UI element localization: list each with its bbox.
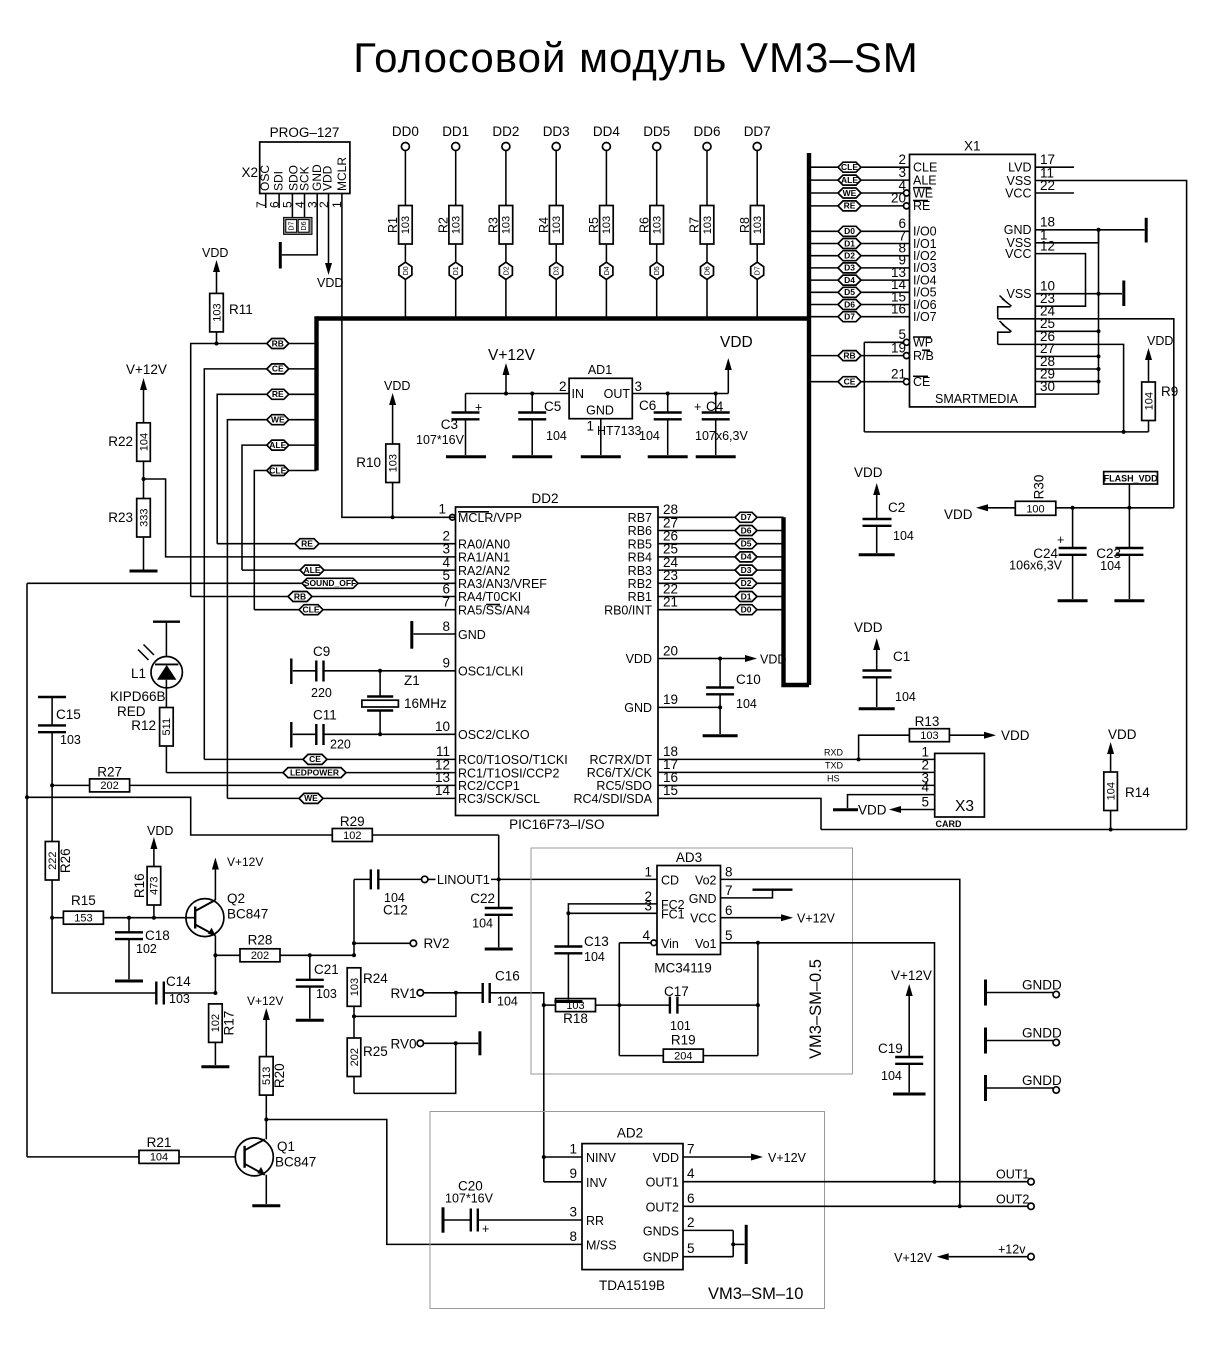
svg-text:VCC: VCC (1005, 247, 1031, 261)
svg-text:D4: D4 (741, 552, 752, 562)
svg-text:R21: R21 (147, 1135, 172, 1150)
svg-text:R18: R18 (563, 1011, 588, 1026)
svg-text:D6: D6 (301, 221, 308, 230)
X1 pin 3 ALE (811, 165, 937, 188)
X1 pin 14 I/O5 (811, 277, 937, 300)
svg-text:C10: C10 (736, 672, 761, 687)
svg-text:103: 103 (601, 216, 613, 234)
svg-text:CD: CD (661, 874, 679, 888)
svg-text:VDD: VDD (626, 652, 652, 666)
regulator AD1 HT7133 (559, 363, 642, 419)
svg-text:7: 7 (254, 201, 268, 208)
capacitor C18 102 (115, 918, 170, 980)
module box VM3-SM-0.5 (531, 848, 853, 1074)
svg-text:RB6: RB6 (628, 524, 652, 538)
svg-text:6: 6 (687, 1191, 695, 1206)
power VDD arrow above R14 (1107, 727, 1137, 754)
svg-text:VDD: VDD (1108, 727, 1137, 742)
Q1 collector wire (264, 1118, 268, 1140)
ground bar C24 (1058, 599, 1088, 602)
capacitor C5 104 (518, 394, 567, 456)
node D0 flag at DD2 (735, 605, 757, 615)
capacitor C13 104 (554, 934, 608, 1000)
svg-text:3: 3 (644, 899, 652, 914)
X1 pin 8 I/O2 (811, 241, 937, 264)
X2 pin 2 VDD wire (317, 194, 344, 291)
svg-text:7: 7 (442, 595, 450, 610)
svg-text:D6: D6 (844, 299, 855, 309)
svg-text:4: 4 (642, 928, 650, 943)
node D1 flag (449, 262, 462, 317)
svg-text:OUT2: OUT2 (996, 1192, 1029, 1206)
svg-text:1: 1 (330, 201, 344, 208)
svg-text:VDD: VDD (202, 246, 228, 260)
svg-text:AD3: AD3 (676, 850, 702, 865)
resistor R27 202 (52, 765, 130, 793)
svg-text:8: 8 (725, 865, 733, 880)
svg-text:RB: RB (843, 350, 855, 360)
node WE flag left (267, 415, 289, 425)
svg-text:VDD: VDD (653, 1151, 679, 1165)
capacitor C4 107x6,3V (694, 394, 748, 456)
svg-text:104: 104 (1143, 392, 1155, 410)
svg-text:104: 104 (150, 1152, 168, 1164)
svg-text:103: 103 (702, 216, 714, 234)
svg-text:Vin: Vin (661, 937, 679, 951)
AD2 OUT2 wire and terminal (683, 1192, 1034, 1209)
DD2 pin 7 RA5/SS/AN4 (254, 595, 530, 618)
svg-text:Vo1: Vo1 (695, 937, 717, 951)
svg-text:+: + (482, 1222, 489, 1236)
svg-text:RB4: RB4 (628, 551, 652, 565)
svg-text:3: 3 (569, 1205, 577, 1220)
capacitor C6 104 (639, 394, 682, 456)
svg-text:19: 19 (891, 340, 906, 355)
svg-text:103: 103 (400, 216, 412, 234)
svg-text:5: 5 (687, 1241, 695, 1256)
svg-text:RED: RED (117, 704, 146, 719)
svg-text:D3: D3 (741, 565, 752, 575)
svg-text:LVD: LVD (1008, 161, 1031, 175)
node CE flag left (267, 364, 289, 374)
svg-text:C18: C18 (145, 928, 170, 943)
svg-text:VDD: VDD (147, 824, 173, 838)
AD2 VDD pin7 V+12V arrow (683, 1151, 807, 1165)
svg-text:153: 153 (74, 913, 92, 925)
capacitor C11 220 (291, 708, 380, 752)
node RB flag at X1 (838, 350, 861, 360)
svg-text:104: 104 (546, 429, 567, 443)
svg-text:GND: GND (1004, 223, 1032, 237)
AD1 pin1 ground stem (586, 419, 641, 456)
wire RV2 node vertical (352, 879, 356, 955)
node D6 flag (701, 262, 714, 317)
svg-text:NINV: NINV (586, 1151, 617, 1165)
svg-text:R24: R24 (363, 971, 388, 986)
svg-text:ALE: ALE (913, 173, 937, 187)
svg-text:RB7: RB7 (628, 511, 652, 525)
ground bar DD2 pin8 (410, 621, 413, 649)
X1 pin 22 VCC (1005, 178, 1074, 201)
connector X2 PROG-127 (241, 125, 349, 194)
node D7 flag (751, 262, 764, 317)
svg-text:D7: D7 (755, 266, 762, 275)
capacitor C12 104 (354, 869, 422, 917)
node CLE flag left (267, 465, 289, 475)
svg-text:5: 5 (921, 795, 929, 810)
capacitor C3 107*16V (416, 394, 482, 456)
ground bar R17 (201, 1065, 229, 1068)
terminal LINOUT1 (422, 873, 658, 887)
svg-text:5: 5 (725, 928, 733, 943)
svg-text:104: 104 (736, 697, 757, 711)
ground bar C13 (554, 1000, 582, 1003)
svg-text:RV2: RV2 (424, 936, 450, 951)
svg-text:Vo2: Vo2 (695, 874, 717, 888)
bus right vertical (807, 153, 811, 685)
Q2 emitter wire (213, 936, 217, 996)
svg-text:MCLR/VPP: MCLR/VPP (458, 511, 522, 525)
svg-text:RB: RB (272, 338, 284, 348)
svg-text:107*16V: 107*16V (445, 1192, 494, 1206)
svg-text:R/B: R/B (913, 349, 934, 363)
connector X1 SMARTMEDIA (910, 139, 1036, 407)
microcontroller DD2 PIC16F73-I/SO (456, 491, 659, 832)
svg-text:SOUND_OFF: SOUND_OFF (304, 578, 356, 588)
svg-text:Голосовой модуль VM3–SM: Голосовой модуль VM3–SM (353, 34, 919, 81)
svg-text:RB: RB (294, 591, 306, 601)
wire R29 feed (27, 797, 332, 835)
capacitor C15 103 (38, 697, 81, 787)
svg-text:D5: D5 (741, 539, 752, 549)
resistor R8 103 (738, 151, 764, 264)
X1 pin 16 I/O7 (811, 302, 937, 325)
svg-text:DD6: DD6 (693, 124, 720, 139)
svg-text:104: 104 (895, 690, 916, 704)
svg-text:D2: D2 (844, 251, 855, 261)
svg-text:VSS: VSS (1006, 287, 1031, 301)
svg-text:R8: R8 (738, 217, 752, 233)
svg-text:473: 473 (149, 877, 161, 895)
resistor R26 222 (45, 785, 72, 919)
svg-text:V+12V: V+12V (894, 1251, 933, 1265)
svg-text:HS: HS (827, 773, 840, 783)
svg-text:GND: GND (586, 404, 614, 418)
X1 pin 26 wire to R9 rail (998, 329, 1124, 432)
svg-text:X1: X1 (964, 139, 981, 154)
svg-text:RB5: RB5 (628, 537, 652, 551)
terminal DD6 (693, 124, 720, 151)
ground bar C2 (859, 553, 895, 556)
svg-text:15: 15 (663, 783, 678, 798)
svg-text:BC847: BC847 (227, 907, 268, 922)
svg-text:AD2: AD2 (617, 1126, 643, 1141)
svg-text:GND: GND (624, 701, 652, 715)
svg-text:220: 220 (311, 686, 332, 700)
AD3 FC2 FC1 wires (566, 904, 657, 947)
node D7 flag at X1 (838, 312, 861, 322)
AD2 NINV INV wires (544, 1157, 582, 1182)
svg-text:OUT1: OUT1 (996, 1168, 1029, 1182)
svg-text:RA0/AN0: RA0/AN0 (458, 537, 510, 551)
svg-text:WE: WE (304, 793, 318, 803)
svg-text:19: 19 (663, 692, 678, 707)
svg-text:R7: R7 (688, 217, 702, 233)
svg-text:R6: R6 (637, 217, 651, 233)
svg-text:16MHz: 16MHz (404, 696, 447, 711)
ground bar C10 (703, 734, 738, 737)
X1 pin 19 R/B (811, 340, 934, 363)
svg-text:CLE: CLE (913, 161, 937, 175)
svg-text:30: 30 (1040, 379, 1055, 394)
resistor R12 511 (131, 708, 173, 773)
svg-text:WE: WE (913, 186, 933, 200)
svg-text:VM3–SM–10: VM3–SM–10 (708, 1285, 803, 1303)
svg-text:16: 16 (891, 302, 906, 317)
node D7 flag at DD2 (735, 512, 757, 522)
bus left vertical (314, 316, 318, 470)
svg-text:V+12V: V+12V (227, 855, 263, 869)
svg-text:101: 101 (670, 1019, 691, 1033)
ground bar C21 (296, 1019, 324, 1022)
svg-text:VDD: VDD (858, 803, 887, 818)
power VDD arrow above R10 (384, 379, 410, 405)
svg-text:C11: C11 (313, 708, 337, 723)
node D2 flag at DD2 (735, 578, 757, 588)
wire OSC1 row (378, 669, 455, 673)
svg-text:R28: R28 (248, 933, 273, 948)
svg-text:D4: D4 (844, 275, 855, 285)
DD2 pin 11 RC0/T1OSO/T1CKI (204, 744, 567, 767)
svg-text:CLE: CLE (841, 162, 858, 172)
DD2 pin 23 RB2 (628, 568, 784, 591)
svg-text:R2: R2 (436, 217, 450, 233)
svg-text:BC847: BC847 (275, 1155, 316, 1170)
node D3 flag at X1 (838, 263, 861, 273)
capacitor C21 103 (296, 955, 339, 1018)
DD2 pin 12 RC1/T1OSI/CCP2 wire (166, 757, 559, 780)
svg-text:DD7: DD7 (744, 124, 771, 139)
title Голосовой модуль VM3-SM (353, 34, 919, 81)
svg-text:R29: R29 (340, 814, 365, 829)
DD2 pin 2 RA0/AN0 (217, 529, 510, 552)
svg-text:RE: RE (913, 199, 930, 213)
svg-text:104: 104 (138, 433, 150, 451)
power VDD arrow above R11 (202, 246, 228, 272)
svg-text:14: 14 (435, 783, 451, 798)
svg-text:V+12V: V+12V (126, 362, 167, 377)
svg-text:21: 21 (891, 367, 906, 382)
X1 pin 23 number (1040, 291, 1055, 306)
svg-text:R10: R10 (356, 455, 381, 470)
svg-text:Q2: Q2 (227, 891, 245, 906)
resistor R17 102 (209, 1004, 237, 1065)
svg-text:1: 1 (586, 419, 594, 434)
svg-text:CLE: CLE (269, 465, 286, 475)
node D1 flag at DD2 (735, 591, 757, 601)
ground bar X1 pin18 (1145, 218, 1148, 243)
svg-text:R17: R17 (221, 1011, 236, 1036)
wire WP pulldown vertical (863, 342, 865, 432)
svg-text:104: 104 (639, 429, 660, 443)
node RE flag left (267, 389, 289, 399)
svg-text:AD1: AD1 (588, 363, 612, 377)
svg-text:103: 103 (211, 303, 223, 321)
svg-text:MC34119: MC34119 (654, 961, 712, 976)
svg-text:RV0: RV0 (390, 1037, 416, 1052)
X2 pin 3 GND wire (282, 194, 320, 255)
node RB flag left (267, 338, 289, 348)
svg-text:GNDS: GNDS (643, 1224, 679, 1238)
wire AD1 input rail (466, 392, 570, 396)
svg-text:202: 202 (100, 780, 118, 792)
ground bar X3 pin4 (833, 808, 858, 811)
X1 pin 20 RE (811, 191, 930, 214)
svg-text:FLASH_VDD: FLASH_VDD (1104, 473, 1159, 483)
svg-text:CE: CE (309, 754, 321, 764)
svg-text:RA3/AN3/VREF: RA3/AN3/VREF (458, 577, 547, 591)
svg-text:C13: C13 (584, 934, 609, 949)
node D3 flag at DD2 (735, 565, 757, 575)
X1 pin 10 VSS wire (1006, 279, 1122, 302)
svg-text:D5: D5 (844, 287, 855, 297)
svg-text:RB2: RB2 (628, 577, 652, 591)
svg-text:103: 103 (920, 730, 938, 742)
svg-text:DD2: DD2 (492, 124, 519, 139)
ground bar AD3 (753, 889, 793, 891)
DD2 pin 18 RC7RX/DT wire to X3 (589, 744, 934, 767)
node D0 flag at X1 (838, 226, 861, 236)
wire Q1 collector to M/SS (266, 1120, 582, 1245)
amplifier AD2 TDA1519B (569, 1126, 695, 1294)
svg-text:104: 104 (1105, 782, 1117, 800)
DD2 pin 24 RB3 (628, 555, 784, 578)
svg-text:RB3: RB3 (628, 564, 652, 578)
ground bar below R23 (130, 570, 158, 573)
svg-text:D5: D5 (654, 266, 661, 275)
svg-text:RB0/INT: RB0/INT (604, 603, 652, 617)
capacitor C22 104 (470, 879, 512, 947)
DD2 pin 16 RC5/SDO wire to X3 (596, 770, 934, 793)
module box VM3-SM-10 (430, 1112, 825, 1309)
DD2 pin 10 OSC2/CLKO (435, 719, 530, 742)
svg-text:C2: C2 (888, 500, 905, 515)
svg-text:RXD: RXD (824, 747, 844, 757)
bus main horizontal (317, 316, 811, 320)
svg-text:R12: R12 (131, 718, 156, 733)
node D1 flag at X1 (838, 238, 861, 248)
node D5 flag at DD2 (735, 539, 757, 549)
svg-text:103: 103 (551, 216, 563, 234)
terminal DD2 (492, 124, 519, 151)
capacitor C10 104 (706, 659, 761, 712)
svg-text:GNDP: GNDP (643, 1251, 679, 1265)
connector X3 CARD (921, 744, 984, 829)
svg-text:LINOUT1: LINOUT1 (437, 873, 490, 887)
terminal RV0 (390, 1037, 478, 1052)
svg-text:D0: D0 (741, 605, 752, 615)
X1 pin 5 WP wire (864, 327, 933, 350)
svg-text:OSC2/CLKO: OSC2/CLKO (458, 728, 530, 742)
svg-text:HT7133: HT7133 (597, 424, 642, 438)
power VDD arrow left of R30 (944, 504, 988, 522)
node CLE flag at DD2 (299, 605, 323, 615)
svg-text:GND: GND (458, 628, 486, 642)
crystal Z1 16MHz (362, 671, 447, 735)
AD3 Vo1 wire to OUT1 (721, 941, 935, 1182)
power VDD arrow above R9 (1145, 334, 1173, 360)
svg-text:21: 21 (663, 595, 678, 610)
ground bar C4 (696, 455, 736, 458)
svg-text:4: 4 (687, 1166, 695, 1181)
wire C15 node to C14 (52, 918, 156, 993)
svg-text:FC1: FC1 (661, 907, 685, 921)
svg-text:9: 9 (569, 1166, 577, 1181)
svg-text:VDD: VDD (760, 653, 786, 667)
ground bar C1 (859, 707, 895, 710)
wire RV1 node (354, 991, 458, 1017)
X3 pin 4 ground wire (848, 795, 935, 808)
svg-text:VM3–SM–0.5: VM3–SM–0.5 (807, 959, 825, 1059)
svg-text:DD1: DD1 (442, 124, 469, 139)
wire WE row to bus (227, 420, 316, 799)
X1 pin 27 wire (1035, 341, 1100, 358)
svg-text:C9: C9 (313, 644, 330, 659)
wire divider tap to DD2 pin3 (144, 479, 456, 557)
svg-text:22: 22 (1040, 178, 1055, 193)
svg-text:VCC: VCC (690, 912, 716, 926)
resistor R22 104 (108, 423, 150, 499)
resistor R4 103 (537, 151, 563, 264)
svg-text:OUT: OUT (604, 387, 631, 401)
svg-text:R16: R16 (132, 873, 147, 898)
resistor R7 103 (688, 151, 714, 264)
svg-text:RC6/TX/CK: RC6/TX/CK (587, 766, 653, 780)
svg-text:RC4/SDI/SDA: RC4/SDI/SDA (574, 792, 653, 806)
resistor R20 513 (260, 1020, 288, 1120)
svg-text:IN: IN (572, 387, 585, 401)
svg-text:INV: INV (586, 1176, 608, 1190)
svg-text:M/SS: M/SS (586, 1238, 617, 1252)
svg-text:TXD: TXD (825, 760, 844, 770)
terminal DD7 (744, 124, 771, 151)
X2 pin 1 MCLR wire to DD2 (330, 194, 455, 518)
node CE flag at X1 (838, 377, 861, 387)
svg-text:ALE: ALE (304, 565, 321, 575)
node RE flag at DD2 (295, 539, 319, 549)
X2 pin 7 stub (254, 194, 268, 209)
ground bar C19 (893, 1093, 926, 1096)
X3 pin 5 VDD arrow (858, 803, 935, 818)
svg-text:D0: D0 (844, 226, 855, 236)
svg-text:VDD: VDD (1001, 728, 1030, 743)
node D2 flag at X1 (838, 251, 861, 261)
resistor R3 103 (487, 151, 513, 264)
resistor R30 100 (988, 475, 1174, 516)
ground bar C5 (512, 455, 552, 458)
svg-text:C16: C16 (495, 969, 520, 984)
node ALE flag at DD2 (300, 565, 324, 575)
X1 pin 7 I/O1 (811, 228, 937, 251)
terminal DD1 (442, 124, 469, 151)
power V+12V arrow at AD1 (488, 347, 536, 394)
svg-text:R26: R26 (58, 848, 73, 873)
svg-text:V+12V: V+12V (891, 968, 932, 983)
node D3 flag (550, 262, 563, 317)
svg-text:GNDD: GNDD (1022, 1073, 1062, 1088)
terminal +12v input (894, 1243, 1034, 1265)
svg-text:1: 1 (569, 1142, 577, 1157)
